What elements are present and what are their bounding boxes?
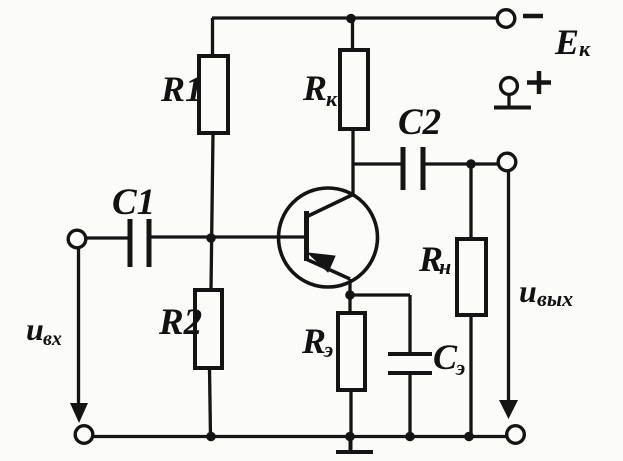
wire R2 bottom xyxy=(210,368,211,437)
ground xyxy=(336,437,373,452)
plus terminal stub xyxy=(507,95,510,108)
svg-text:C1: C1 xyxy=(112,182,155,223)
node output junction xyxy=(466,159,476,169)
wire R1 bottom to R2 top xyxy=(211,133,213,290)
plus sign xyxy=(527,71,551,94)
transistor emitter line xyxy=(306,259,350,279)
capacitor C2 xyxy=(403,147,423,190)
terminal input top xyxy=(68,230,86,248)
resistor Rn xyxy=(457,239,486,315)
wire Rn top xyxy=(469,164,472,239)
wire emitter branch to Ce xyxy=(350,293,410,296)
capacitor C1 xyxy=(130,219,149,267)
wire R1 top drop xyxy=(211,18,214,56)
node emitter junction xyxy=(345,290,355,300)
wire Rk top xyxy=(351,18,354,50)
svg-text:э: э xyxy=(323,337,333,362)
transistor VT circle xyxy=(279,188,378,287)
wire C2 to output terminal xyxy=(426,162,499,165)
terminal output top xyxy=(498,153,516,171)
wire emitter vertical xyxy=(348,279,351,313)
node Re bottom xyxy=(345,432,355,442)
svg-text:u: u xyxy=(26,311,44,347)
resistor Re xyxy=(338,313,365,390)
arrow u_out xyxy=(499,400,518,419)
transistor base bar xyxy=(304,211,309,261)
wire collector vertical xyxy=(351,129,354,195)
wire top rail xyxy=(212,16,497,19)
node Rn bottom xyxy=(464,432,474,442)
svg-text:R: R xyxy=(301,321,326,361)
svg-text:к: к xyxy=(579,36,591,61)
svg-text:E: E xyxy=(554,22,579,62)
transistor emitter arrow xyxy=(308,253,335,272)
minus sign xyxy=(523,14,543,19)
battery minus terminal xyxy=(497,10,515,28)
node Ce bottom xyxy=(405,432,415,442)
terminal input bottom xyxy=(75,426,93,444)
svg-text:к: к xyxy=(326,86,338,111)
capacitor Ce xyxy=(388,354,432,373)
wire Rn bottom xyxy=(469,315,472,437)
wire u_in measurement line xyxy=(77,248,80,405)
svg-text:вх: вх xyxy=(43,328,62,350)
resistor R2 xyxy=(195,290,222,368)
transistor collector line xyxy=(306,194,354,217)
svg-text:R2: R2 xyxy=(158,302,202,343)
wire Ce bottom xyxy=(408,373,411,437)
wire bottom rail xyxy=(93,435,507,438)
svg-text:R: R xyxy=(302,68,327,108)
wire input to C1 xyxy=(86,236,128,239)
node R2 bottom xyxy=(206,432,216,442)
svg-text:C: C xyxy=(433,337,458,377)
wire collector to C2 xyxy=(353,162,401,165)
resistor Rk xyxy=(340,50,368,129)
node base junction xyxy=(206,233,216,243)
svg-text:C2: C2 xyxy=(398,102,441,143)
node junction top of Rk xyxy=(346,14,356,24)
wire Re bottom xyxy=(349,390,352,437)
wire C1 to base xyxy=(152,235,305,238)
terminal output bottom xyxy=(507,426,525,444)
arrow u_in xyxy=(70,403,88,423)
wire Ce top xyxy=(408,295,411,356)
resistor R1 xyxy=(199,56,228,133)
svg-text:н: н xyxy=(439,254,451,279)
svg-text:R1: R1 xyxy=(160,69,203,109)
svg-text:э: э xyxy=(455,355,465,380)
svg-text:u: u xyxy=(519,273,537,309)
battery plus terminal xyxy=(501,78,518,95)
wire u_out measurement line xyxy=(507,171,510,402)
svg-text:вых: вых xyxy=(537,286,573,311)
